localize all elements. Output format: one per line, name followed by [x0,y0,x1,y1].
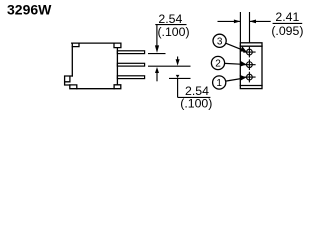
dimension line 2.41 right [250,20,271,22]
arrowhead down at lead2 line [176,59,180,65]
dimension text 2.54 (.100) top [157,12,189,39]
leader line top 2.54 label [155,25,186,46]
trimmer body side view outline [72,43,118,89]
extension line body edge [239,12,241,42]
pin 3 terminal (end view) [243,47,255,58]
lead 3 (bottom, side view) [117,76,144,79]
end view body [240,43,262,89]
extension line at lead 2 [148,65,191,67]
adjustment screw (side) [65,76,73,85]
pin number 3 balloon [213,34,247,51]
pin number 1 balloon [213,75,247,89]
leader bar 2.41 label [273,22,303,24]
bottom-left standoff [70,85,77,89]
svg-text:2: 2 [215,59,221,70]
pin 1 terminal (end view) [243,72,255,83]
dimension text 2.54 (.100) bottom [180,84,212,111]
arrowhead down at lead1 line [155,45,159,53]
svg-text:1: 1 [216,78,222,89]
dimension text 2.41 (.095) [271,10,303,38]
svg-text:(.100): (.100) [180,97,212,111]
lead 2 (middle, side view) [117,63,144,66]
pin 2 terminal (end view) [243,59,255,70]
arrowhead up at lead2 line [155,67,159,73]
top-left boss [72,43,79,47]
extension line at lead 1 [148,53,166,55]
svg-text:(.095): (.095) [271,24,303,38]
svg-text:2.41: 2.41 [275,10,299,24]
pin number 2 balloon [211,56,246,69]
svg-text:3: 3 [217,36,223,47]
dimension line 2.41 left [218,20,241,22]
extension line at lead 3 [169,77,191,79]
svg-text:(.100): (.100) [157,25,189,39]
arrowhead left at pin center [250,20,257,24]
leader line bottom 2.54 label [178,79,211,97]
bottom-right standoff [114,85,121,89]
arrowhead right at body edge [234,20,241,24]
up arrow tail (top dimension) [156,72,158,82]
top-right boss [114,43,121,48]
arrowhead down at lead3 line [176,75,180,78]
lead 1 (top, side view) [117,51,144,54]
svg-text:2.54: 2.54 [158,12,182,26]
svg-text:3296W: 3296W [7,1,52,17]
down arrow tail (bottom dimension) [177,57,179,62]
extension line pin center [249,12,251,42]
